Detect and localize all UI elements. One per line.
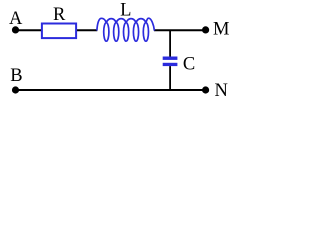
svg-text:C: C	[183, 55, 195, 75]
wire B to N (bottom)	[16, 89, 206, 91]
node M	[202, 26, 209, 33]
svg-text:L: L	[120, 0, 131, 20]
svg-text:R: R	[53, 5, 66, 25]
capacitor C bottom plate	[163, 63, 178, 66]
svg-text:M: M	[213, 20, 229, 40]
inductor L	[97, 18, 154, 41]
svg-text:A: A	[9, 9, 23, 29]
node B	[12, 86, 19, 93]
svg-text:N: N	[215, 81, 228, 101]
wire capacitor bottom to bottom wire	[169, 66, 171, 90]
wire A to resistor	[16, 29, 43, 31]
wire junction to capacitor top	[169, 30, 171, 56]
resistor R	[42, 24, 76, 39]
wire resistor to inductor	[76, 29, 97, 31]
svg-text:B: B	[10, 66, 22, 86]
capacitor C top plate	[163, 57, 178, 60]
node A	[12, 26, 19, 33]
wire inductor to M	[154, 29, 206, 31]
node N	[202, 86, 209, 93]
